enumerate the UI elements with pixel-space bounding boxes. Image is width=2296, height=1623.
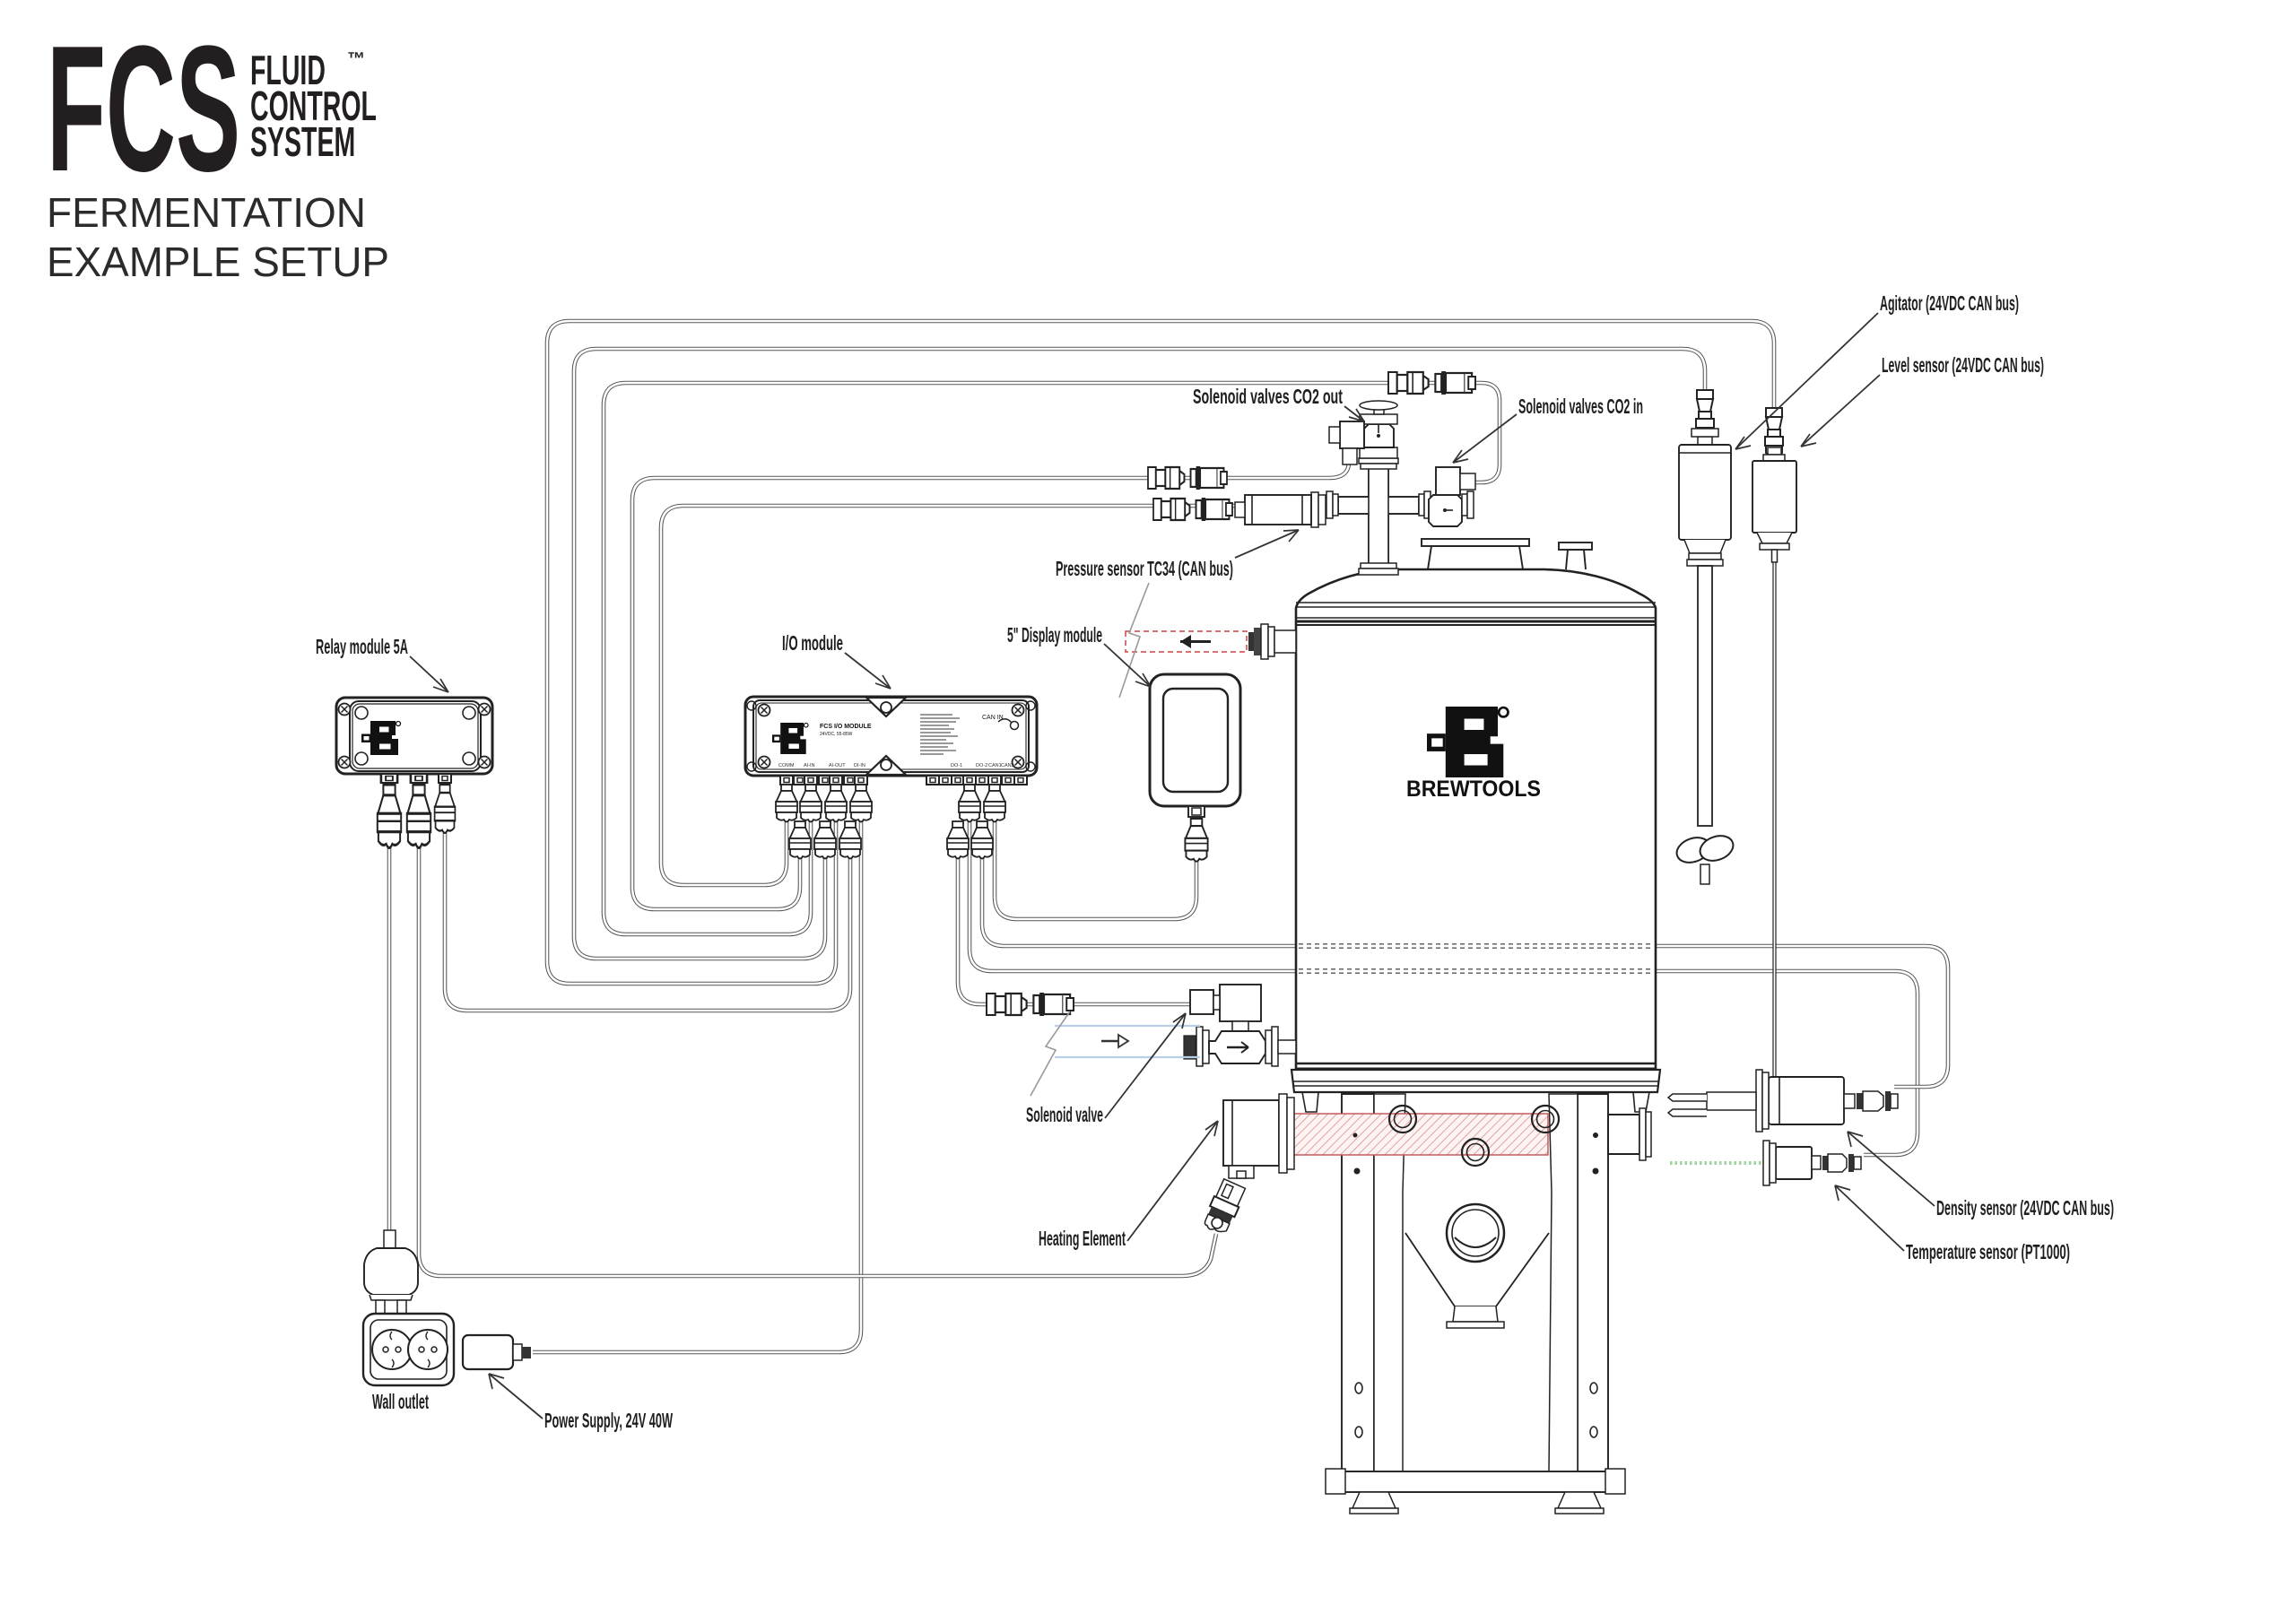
cross horizontal arms xyxy=(1338,497,1419,514)
svg-text:Density sensor (24VDC CAN bus): Density sensor (24VDC CAN bus) xyxy=(1936,1196,2114,1219)
stand left leg xyxy=(1342,1094,1374,1471)
svg-text:5" Display module: 5" Display module xyxy=(1007,623,1102,647)
svg-text:COMM: COMM xyxy=(778,763,795,768)
svg-text:24VDC, 55-85W: 24VDC, 55-85W xyxy=(820,732,853,737)
display port tri-clamp on tank xyxy=(1261,624,1268,659)
dashed wire segments passing behind tank (W12 density, W11 temperature) xyxy=(1299,944,1653,973)
blue inlet lines xyxy=(1055,1025,1200,1027)
svg-text:FERMENTATION: FERMENTATION xyxy=(47,189,366,236)
bolt ports on heating band xyxy=(1389,1106,1416,1133)
bottom solenoid valve coil xyxy=(1220,985,1261,1021)
svg-text:Power Supply, 24V 40W: Power Supply, 24V 40W xyxy=(544,1409,673,1432)
stand right leg xyxy=(1578,1094,1608,1471)
level sensor rod xyxy=(1772,550,1778,562)
leg holes xyxy=(1355,1383,1362,1393)
lightning break at display xyxy=(1119,583,1149,698)
svg-text:BREWTOOLS: BREWTOOLS xyxy=(1406,777,1541,802)
CO2-out ball valve (top) xyxy=(1360,447,1397,458)
wire W10 I/O to solenoid valve xyxy=(958,852,1193,1004)
svg-text:Solenoid valves CO2 out: Solenoid valves CO2 out xyxy=(1193,385,1343,408)
I/O port labels xyxy=(778,763,1014,768)
I/O plugs upper row xyxy=(776,785,797,822)
level sensor connector pair xyxy=(1765,408,1783,456)
svg-text:Relay module 5A: Relay module 5A xyxy=(316,635,408,658)
inline connectors on pressure wire xyxy=(1153,498,1232,521)
relay plugs xyxy=(378,785,401,848)
tank body silhouette xyxy=(1296,569,1656,1070)
CO2 cross manifold vertical pipe xyxy=(1369,469,1388,569)
density sensor body xyxy=(1769,1077,1844,1124)
display module xyxy=(1150,674,1240,806)
skirt end tabs xyxy=(1302,1092,1318,1112)
inline connectors on CO2-out wire xyxy=(1148,466,1227,490)
wire W11 I/O to temperature sensor (passes behind tank) xyxy=(970,811,1918,1155)
wire W5 pressure sensor loop xyxy=(661,506,1238,885)
svg-text:AI-IN: AI-IN xyxy=(804,763,815,768)
level sensor body xyxy=(1768,447,1781,455)
I/O ports left group xyxy=(780,776,793,785)
I/O module B logo xyxy=(772,723,808,754)
agitator propeller xyxy=(1674,833,1714,866)
wire W1 level sensor loop xyxy=(547,321,1774,984)
wire W13 I/O to display module xyxy=(995,811,1196,919)
BREWTOOLS logo on tank xyxy=(1406,707,1541,802)
wire W4 CO2-out solenoid loop xyxy=(632,462,1349,909)
svg-text:I/O module: I/O module xyxy=(782,631,843,655)
svg-text:Wall outlet: Wall outlet xyxy=(372,1390,429,1413)
tank flange ring lines xyxy=(1296,602,1656,603)
temperature sensor connector xyxy=(1812,1156,1821,1169)
tank bottom band xyxy=(1296,1063,1656,1064)
wire W12 I/O to density sensor (passes behind tank) xyxy=(982,852,1948,1087)
bottom solenoid valve body xyxy=(1184,1036,1196,1059)
wire W9 relay to heating element xyxy=(419,847,1216,1276)
relay module B logo xyxy=(361,721,401,755)
svg-text:DO-1: DO-1 xyxy=(951,763,962,768)
I/O top and bottom mounting tabs xyxy=(866,698,906,716)
cross right arm end plates xyxy=(1419,494,1424,516)
agitator motor xyxy=(1698,437,1712,445)
svg-text:Solenoid valve: Solenoid valve xyxy=(1026,1103,1103,1126)
I/O module box xyxy=(745,697,1037,776)
wire W8 relay to mains plug xyxy=(387,847,392,1232)
relay ports xyxy=(381,774,397,783)
EU mains plug xyxy=(384,1230,396,1248)
cone outlet spout xyxy=(1453,1306,1498,1322)
tank bottom skirt xyxy=(1291,1070,1660,1092)
agitator shaft xyxy=(1698,566,1712,826)
svg-text:EXAMPLE SETUP: EXAMPLE SETUP xyxy=(47,239,389,285)
pressure sensor TC34 xyxy=(1311,492,1318,527)
svg-text:Agitator (24VDC CAN bus): Agitator (24VDC CAN bus) xyxy=(1880,291,2019,315)
FCS logo xyxy=(47,10,240,210)
side port on cone right xyxy=(1608,1115,1639,1154)
red dashed duct to display port xyxy=(1126,631,1247,652)
cross bottom flange xyxy=(1361,563,1396,568)
svg-text:CAN1: CAN1 xyxy=(988,763,1002,768)
small connector at display port xyxy=(1248,632,1261,651)
relay module 5A box xyxy=(336,698,492,774)
svg-text:™: ™ xyxy=(347,49,365,69)
svg-text:Level sensor (24VDC CAN bus): Level sensor (24VDC CAN bus) xyxy=(1882,353,2044,377)
open arrow on blue line xyxy=(1101,1040,1128,1043)
svg-text:Pressure sensor TC34 (CAN bus): Pressure sensor TC34 (CAN bus) xyxy=(1056,557,1233,580)
CO2-in ball valve (right arm) xyxy=(1429,495,1462,526)
wire W7 power supply to I/O xyxy=(533,811,861,1352)
small port on dome right xyxy=(1566,550,1586,569)
wire W2 agitator loop xyxy=(574,349,1705,959)
svg-text:DI-IN: DI-IN xyxy=(854,763,865,768)
wire W3 CO2-in solenoid loop xyxy=(604,383,1500,934)
svg-text:Temperature sensor (PT1000): Temperature sensor (PT1000) xyxy=(1906,1240,2070,1263)
flow arrow inside valve xyxy=(1227,1046,1248,1049)
cross left arm end plates xyxy=(1326,491,1333,518)
I/O plugs lower row xyxy=(789,821,811,859)
svg-text:AI-OUT: AI-OUT xyxy=(829,763,846,768)
density sensor connector xyxy=(1844,1094,1855,1108)
cross top tri-clamp xyxy=(1359,458,1398,464)
heating element red hatch zone xyxy=(1291,1114,1548,1155)
svg-text:Heating Element: Heating Element xyxy=(1039,1227,1126,1250)
heating element plug (angled) xyxy=(1201,1178,1247,1237)
manway port on dome xyxy=(1428,546,1523,569)
base bar xyxy=(1330,1471,1622,1492)
svg-text:FCS: FCS xyxy=(47,10,240,210)
solenoid coil CO2-out xyxy=(1340,421,1364,448)
solenoid coil CO2-in xyxy=(1436,467,1460,495)
svg-text:SYSTEM: SYSTEM xyxy=(250,119,355,166)
inline connectors on CO2-in wire xyxy=(1388,371,1475,395)
svg-text:CAN2: CAN2 xyxy=(1001,763,1014,768)
wire W6 relay to I/O CAN xyxy=(445,811,850,1011)
heating element body xyxy=(1223,1100,1279,1166)
temperature sensor body xyxy=(1776,1147,1812,1179)
svg-text:Solenoid valves CO2 in: Solenoid valves CO2 in xyxy=(1518,395,1643,418)
svg-text:FCS I/O MODULE: FCS I/O MODULE xyxy=(820,724,872,730)
feet xyxy=(1352,1492,1396,1508)
top port pipe stub from CO2 cross xyxy=(1370,574,1387,596)
temperature probe green dashed xyxy=(1670,1161,1763,1165)
I/O ports right group xyxy=(926,776,939,785)
sight glass on cone xyxy=(1447,1204,1504,1262)
agitator connector pair xyxy=(1696,390,1714,438)
wall outlet xyxy=(363,1314,454,1385)
density sensor fork xyxy=(1668,1094,1707,1101)
inline connectors on solenoid valve wire xyxy=(987,993,1074,1016)
svg-text:DO-2: DO-2 xyxy=(976,763,987,768)
power supply xyxy=(463,1335,513,1369)
lightning break at solenoid xyxy=(1031,1011,1070,1096)
tank cone between legs xyxy=(1405,1233,1549,1306)
